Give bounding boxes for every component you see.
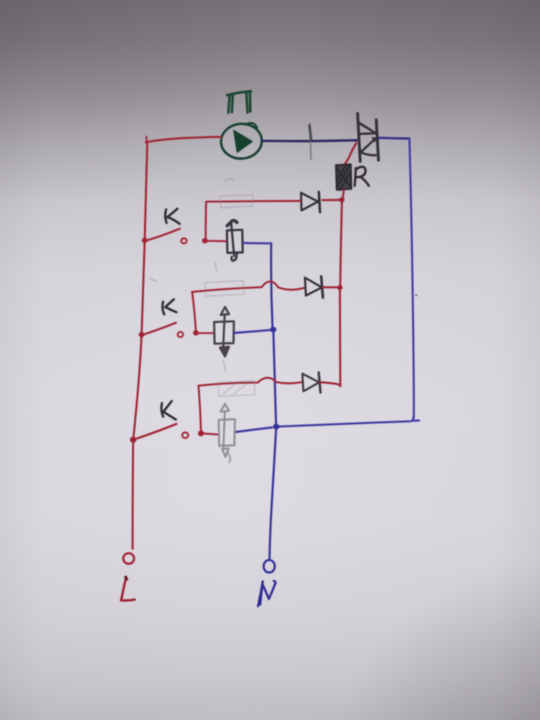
wire: diode D3 to red bus end: [320, 382, 340, 386]
ink speck right area: [415, 294, 417, 296]
red diode bus vertical: [340, 202, 342, 287]
pencil ghost rectangle row2: [205, 281, 244, 296]
pencil marks below valve Y2: [223, 360, 225, 372]
pump P1 (circle with filled triangle): [220, 122, 263, 160]
red L bus (left vertical): [133, 142, 148, 549]
valve Y3 (pencil, rect with arrows): [219, 404, 235, 463]
wire: switch1 vertical riser (red): [205, 202, 207, 240]
valve Y2 (rect with arrows): [214, 307, 234, 357]
switch K2: [139, 323, 214, 338]
junction dot N bus / valve Y2: [270, 327, 276, 333]
switch K3: [130, 424, 219, 443]
wire: switch3 riser and row3 horizontal (red): [199, 378, 302, 386]
node B junction dot: [337, 285, 342, 290]
pencil ghost rectangle row3: [218, 381, 255, 396]
blue N bus (middle vertical): [271, 243, 273, 329]
label P (Cyrillic Pe) above pump: [227, 91, 251, 113]
pencil tick mark on blue wire: [310, 124, 311, 160]
resistor R (hatched box): [336, 164, 351, 189]
wire: pump to diac (blue, dark): [262, 139, 356, 142]
pencil curl below pump: [226, 179, 234, 181]
junction dot N bus / valve Y3: [273, 424, 279, 430]
node A junction dot: [339, 197, 345, 202]
label N: [258, 581, 276, 606]
wire: diac to right corner (blue): [379, 137, 410, 140]
pencil tick left of row2: [150, 278, 157, 281]
wire: valve Y2 to N bus (blue): [235, 330, 271, 333]
label K3: [161, 401, 175, 419]
label R: [355, 167, 369, 186]
terminal N (open circle): [264, 560, 275, 573]
wire: diac left terminal to resistor (red): [345, 143, 357, 164]
diode D1: [301, 192, 320, 212]
wire: left bus to pump (red): [146, 137, 221, 142]
diode D3: [302, 372, 320, 392]
wire: resistor to node A (red): [343, 190, 344, 199]
switch K1: [142, 229, 227, 244]
label L: [121, 577, 135, 601]
wire: valve Y3 to N bus (blue): [236, 427, 272, 432]
diac VS1: [358, 113, 379, 161]
pen overshoot tick at top-left corner: [145, 136, 148, 143]
pencil ghost rectangle row1: [220, 195, 253, 208]
blue right bus (down and along bottom to N bus): [277, 139, 414, 427]
label K1: [165, 209, 179, 224]
valve Y1 (rect with arrow): [227, 220, 243, 260]
wire: valve Y1 to N bus (blue): [243, 242, 271, 244]
wire: diode D2 to red bus: [323, 286, 340, 288]
pencil marks below valve Y1: [215, 262, 217, 271]
label K2: [162, 299, 176, 314]
wire: switch1 node to diode D1 (red row1 horizontal): [206, 200, 300, 203]
wire: switch2 riser and row2 horizontal (red): [192, 281, 305, 292]
diode D2: [305, 276, 323, 297]
terminal L (open circle): [123, 553, 134, 564]
wire: node A to diode D1 (red): [322, 199, 339, 201]
